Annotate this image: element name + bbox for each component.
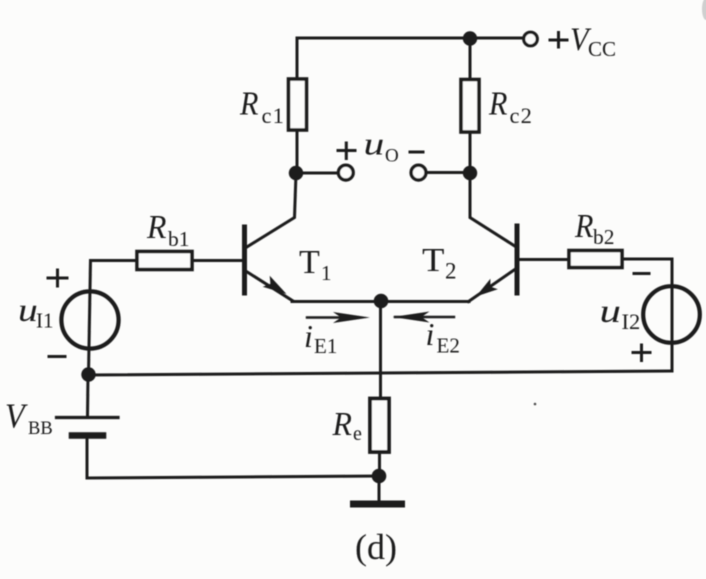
wire T2 base	[519, 258, 569, 261]
svg-text:u: u	[364, 127, 385, 162]
svg-text:b1: b1	[168, 227, 190, 251]
svg-text:T: T	[299, 244, 320, 281]
svg-text:BB: BB	[28, 419, 53, 439]
svg-text:E2: E2	[437, 334, 460, 358]
wire VBB bottom lead	[86, 438, 89, 479]
svg-text:R: R	[146, 209, 166, 246]
terminal VCC open circle	[524, 32, 538, 46]
scan speck	[534, 403, 537, 406]
wire T2 emitter horizontal	[381, 300, 469, 303]
wire uI2 vertical	[671, 259, 674, 371]
transistor T2 bar	[515, 226, 520, 293]
node dot emitter junction	[374, 294, 389, 309]
label VBB	[5, 397, 53, 439]
source uI1 circle	[61, 291, 118, 348]
svg-text:i: i	[426, 316, 435, 352]
label T1	[299, 244, 332, 285]
node dot left mid rail	[81, 367, 95, 381]
minus sign uO	[410, 151, 423, 154]
wire output left stub	[297, 172, 339, 175]
svg-text:u: u	[18, 292, 38, 328]
transistor T1 bar	[242, 227, 247, 293]
wire T1 base	[192, 259, 243, 262]
resistor Rc1	[289, 79, 307, 130]
wire middle rail	[89, 371, 672, 375]
arrow iE1	[307, 312, 370, 323]
svg-text:2: 2	[445, 259, 457, 284]
node dot output right	[463, 166, 477, 180]
resistor Rb2	[569, 251, 622, 268]
svg-text:u: u	[600, 294, 621, 330]
wire T1 collector vertical+diagonal	[246, 173, 296, 248]
label iE2	[426, 316, 460, 358]
svg-text:I1: I1	[36, 309, 54, 333]
svg-text:T: T	[422, 240, 445, 278]
wire ground stem	[378, 476, 381, 501]
battery VBB short plate	[72, 432, 103, 439]
node dot VCC rail	[463, 31, 477, 45]
wire VBB top lead	[86, 375, 90, 416]
wire Rc2 bottom to output node	[469, 131, 472, 174]
plus sign uI2	[633, 345, 650, 361]
svg-text:c1: c1	[262, 103, 286, 128]
wire emitter node to Re	[379, 301, 382, 399]
svg-text:1: 1	[321, 261, 332, 285]
label uI1	[18, 292, 54, 332]
svg-text:R: R	[239, 85, 258, 122]
label T2	[422, 240, 457, 283]
wire output right stub	[425, 171, 470, 174]
node dot output left	[289, 166, 303, 180]
transistor T2 emitter arrowhead	[476, 279, 498, 297]
svg-text:E1: E1	[314, 334, 337, 358]
label iE1	[304, 318, 337, 358]
svg-text:(d): (d)	[355, 527, 397, 567]
svg-text:R: R	[332, 406, 352, 443]
svg-text:R: R	[574, 208, 593, 245]
svg-text:O: O	[385, 146, 399, 167]
wire Re bottom lead	[378, 452, 381, 476]
svg-text:c2: c2	[510, 103, 534, 128]
minus sign uI2	[634, 272, 649, 275]
svg-text:R: R	[488, 85, 507, 122]
node dot Re bottom	[372, 469, 387, 484]
svg-text:CC: CC	[588, 37, 616, 61]
svg-text:b2: b2	[593, 225, 615, 249]
minus sign uI1	[49, 355, 65, 358]
wire T1 emitter diagonal	[247, 272, 294, 302]
wire Rc1 top drop	[296, 38, 299, 79]
svg-text:i: i	[304, 318, 313, 354]
arrow iE2	[393, 312, 455, 323]
wire Rc1 bottom to output node	[296, 129, 299, 174]
resistor Re	[370, 399, 389, 453]
resistor Rb1	[137, 252, 192, 270]
svg-text:V: V	[5, 397, 28, 436]
label VCC	[570, 21, 616, 61]
svg-text:I2: I2	[622, 309, 641, 334]
label uI2	[600, 294, 641, 334]
label Rc1	[239, 85, 285, 128]
battery VBB long plate	[57, 416, 119, 419]
wire Rc2 top drop	[469, 39, 472, 80]
wire bottom rail	[87, 476, 379, 478]
plus sign uI1	[48, 270, 67, 286]
wire uI1 top corner to Rb1	[91, 259, 138, 262]
plus sign VCC	[550, 33, 567, 48]
wire uI1 vertical	[89, 261, 91, 375]
ground	[354, 501, 402, 508]
label Rc2	[488, 85, 533, 128]
source uI2 circle	[643, 286, 700, 343]
scan smudge top-right corner	[702, 0, 706, 20]
label Rb2	[574, 208, 614, 249]
terminal uO plus open circle	[338, 165, 353, 180]
wire T2 emitter diagonal	[469, 269, 516, 302]
wire top rail	[297, 37, 524, 40]
wire T2 collector vertical+diagonal	[470, 173, 516, 247]
label Re	[332, 406, 362, 445]
label uO	[364, 127, 399, 167]
label Rb1	[146, 209, 189, 251]
plus sign uO	[338, 143, 355, 159]
wire T1 emitter horizontal	[292, 300, 381, 303]
wire Rb2 to uI2 corner	[622, 258, 672, 261]
terminal uO minus open circle	[411, 165, 426, 180]
resistor Rc2	[461, 80, 479, 133]
transistor T1 emitter arrowhead	[263, 276, 287, 294]
svg-text:e: e	[353, 423, 362, 445]
